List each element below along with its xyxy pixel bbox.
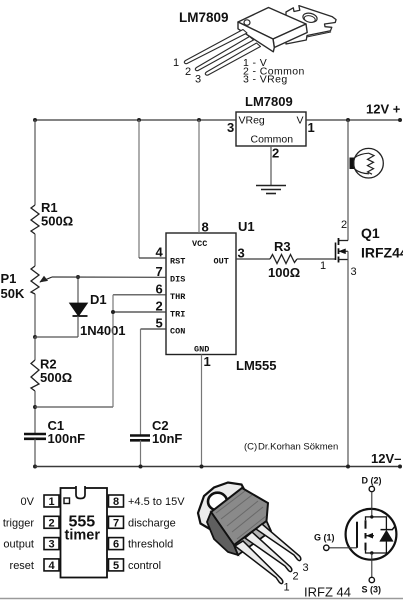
wire pin4 stub [139,257,166,259]
wire R3 to gate [297,258,336,260]
DIP pin box 8 [109,495,124,507]
bottom scan line [0,598,403,600]
symbol gate bar [356,522,358,548]
svg-text:reset: reset [10,560,34,572]
IRFZ44 package tab [198,483,245,531]
svg-text:control: control [128,560,161,572]
node dot C2 bottom rail [139,465,143,469]
LM7809 pin 3 [205,43,260,75]
wire pin2 TRI stub [113,311,166,313]
potentiometer P1 wiper arrow [40,277,52,282]
wire R1 to P1 [34,234,36,266]
LM7809 pin 2 [195,37,253,71]
svg-text:RST: RST [170,257,185,267]
svg-text:Common: Common [251,134,294,146]
LM7809 body front face [238,22,274,52]
svg-text:10nF: 10nF [152,431,182,446]
svg-text:2: 2 [156,299,163,314]
wire pin8 VCC vertical [198,120,200,233]
lamp filament [368,153,375,174]
wire source out of circle [371,553,373,577]
svg-text:1: 1 [173,57,179,69]
node dot Q1 bottom rail [346,465,350,469]
Q1 body arrow [339,250,348,252]
wire pin7 DIS stub from wiper [52,276,166,278]
svg-text:1: 1 [320,260,326,272]
svg-text:LM7809: LM7809 [245,94,293,109]
DIP pin box 4 [44,559,59,571]
wire C2 to bottom rail [140,440,142,466]
IRFZ44 pin 3 [256,524,301,561]
node dot lamp branch top rail [346,118,350,122]
svg-text:S (3): S (3) [362,585,382,595]
svg-text:6: 6 [113,539,119,551]
drain terminal circle [369,486,374,491]
555 pinout DIP body [61,488,108,578]
IRFZ44 pin 1 [235,541,283,584]
node dot drain junction [370,515,373,518]
wire R2 to C1 [34,391,36,434]
gate lead wire [329,547,357,549]
svg-text:5: 5 [156,316,163,331]
node dot TRI junction [111,310,115,314]
svg-text:threshold: threshold [128,539,173,551]
svg-text:50K: 50K [1,286,25,301]
wire left rail top [34,120,36,205]
IRFZ44 body front face [207,512,238,555]
svg-text:3 - VReg: 3 - VReg [243,74,288,86]
node dot bottom rail left [33,465,37,469]
source terminal circle [369,577,374,582]
wire pin6 THR stub [113,294,166,296]
svg-text:500Ω: 500Ω [41,214,73,229]
svg-text:1N4001: 1N4001 [80,323,126,338]
DIP pin1 marker [64,498,70,504]
DIP notch [76,486,85,499]
wire pin1 GND vertical [201,355,203,467]
svg-text:OUT: OUT [214,257,229,267]
lamp bulb [354,148,384,178]
svg-text:8: 8 [202,220,209,235]
svg-text:trigger: trigger [3,517,35,529]
wire bottom rail [35,466,400,468]
DIP pin box 6 [109,538,124,550]
body diode vertical bottom [385,541,387,553]
lamp base [350,158,355,170]
resistor R2 [31,360,39,391]
wire pin4 RST vertical from rail [138,120,140,258]
svg-text:12V +: 12V + [366,102,401,117]
svg-text:U1: U1 [238,219,255,234]
LM7809 tab hole [302,12,318,24]
svg-text:VCC: VCC [192,239,207,249]
DIP pin box 7 [109,516,124,528]
lamp neck arcs [355,153,370,174]
wire D1 bottom to rail [35,336,78,338]
svg-text:GND: GND [194,345,209,355]
svg-text:1: 1 [284,582,290,594]
wire Q1 source to bottom rail [347,251,349,466]
wire C1 to bottom rail [34,439,36,467]
svg-text:timer: timer [65,528,101,544]
node terminal dot 12V+ [398,118,402,122]
svg-text:4: 4 [156,245,164,260]
svg-text:1: 1 [308,120,315,135]
wire 12V+ rail left segment [35,119,236,121]
svg-text:P1: P1 [1,271,17,286]
wire branch to x113 vertical [35,406,113,408]
symbol channel bar segments [365,520,367,550]
svg-text:8: 8 [113,496,119,508]
DIP pin box 2 [44,516,59,528]
DIP pin box 3 [44,538,59,550]
diode D1 wire top [77,277,79,303]
svg-text:VReg: VReg [239,115,265,127]
wire pin5 CON stub [141,328,167,330]
LM7809 body right face [273,24,307,48]
source connect channel [366,550,387,553]
resistor R3 [270,255,297,264]
regulator box [236,112,306,146]
svg-text:12V–: 12V– [371,451,401,466]
IRFZ44 body texture [216,491,266,539]
svg-text:3: 3 [195,74,201,86]
svg-text:+4.5 to 15V: +4.5 to 15V [128,496,185,508]
svg-text:7: 7 [156,264,163,279]
svg-text:3: 3 [227,120,234,135]
Q1 channel bar segments [338,238,340,263]
node dot wire-to-TRI branch [33,405,37,409]
drain connect to diode branch [372,517,387,529]
svg-text:THR: THR [170,292,186,302]
svg-text:2: 2 [49,517,55,529]
MOSFET symbol circle [346,509,397,560]
wire regulator pin2 to ground [270,146,272,186]
DIP pin box 5 [109,559,124,571]
body diode triangle [380,530,394,541]
drain connect to channel [366,517,372,520]
node dot D1 bottom rail [33,335,37,339]
wire THR-TRI vertical x113 down to branch [112,295,114,407]
svg-text:4: 4 [49,560,56,572]
svg-text:IRFZ44: IRFZ44 [361,245,403,261]
svg-text:6: 6 [156,282,163,297]
svg-text:3: 3 [303,562,309,574]
svg-text:100nF: 100nF [48,431,86,446]
LM7809 body top face [238,8,306,40]
svg-text:Q1: Q1 [361,225,380,241]
node dot wiper wire D1 [76,275,80,279]
svg-text:2: 2 [293,571,299,583]
svg-text:LM7809: LM7809 [179,10,229,25]
capacitor C2 [130,436,150,441]
transistor Q1 drain lead [339,240,349,242]
symbol body arrow [366,535,374,537]
IRFZ44 tab hole [208,493,227,511]
DIP pin box 1 [44,495,59,507]
ground symbol [256,186,286,194]
LM7809 package tab [286,6,336,44]
IRFZ44 body top face [211,488,268,545]
wire junction to R2 [34,337,36,360]
svg-text:0V: 0V [21,496,35,508]
svg-text:G (1): G (1) [314,533,335,543]
svg-text:discharge: discharge [128,517,176,529]
svg-text:D1: D1 [90,292,107,307]
svg-text:DIS: DIS [170,275,185,285]
svg-text:V: V [297,115,304,127]
svg-text:1: 1 [49,496,55,508]
svg-text:3: 3 [238,246,245,261]
svg-text:3: 3 [351,266,357,278]
svg-text:(C) Dr.Korhan Sökmen: (C) Dr.Korhan Sökmen [244,442,338,453]
node dot source junction [370,551,373,554]
svg-text:1: 1 [204,354,211,369]
svg-text:500Ω: 500Ω [40,370,72,385]
svg-text:3: 3 [49,539,55,551]
IRFZ44 pin 2 [245,532,292,572]
svg-text:R3: R3 [274,239,291,254]
node dot top-left corner [33,118,37,122]
svg-text:IRFZ 44: IRFZ 44 [304,585,351,600]
svg-text:5: 5 [113,560,119,572]
LM7809 tab thickness line [307,32,331,37]
capacitor C1 [24,434,46,439]
node dot at x139 top rail [137,118,141,122]
wire CON vertical to C2 [140,329,142,435]
wire P1 to lower junction [34,294,36,337]
svg-text:LM555: LM555 [236,358,276,373]
IRFZ44 body lower face [234,521,271,555]
potentiometer P1 body [31,266,39,294]
svg-text:TRI: TRI [170,310,185,320]
Q1 source lead [339,259,349,261]
wire pin3 OUT stub [236,258,270,260]
wire drain into circle [371,492,373,517]
svg-text:100Ω: 100Ω [268,265,300,280]
resistor R1 [31,205,39,234]
body diode zener bar [381,526,395,529]
svg-text:2: 2 [272,146,279,161]
svg-text:2: 2 [185,66,191,78]
IC U1 LM555 box [166,233,236,355]
wire 12V+ rail right segment [306,119,400,121]
wire lamp branch vertical [347,120,349,241]
diode D1 wire bottom [77,316,79,337]
gate terminal circle [324,545,329,550]
LM7809 pin 1 [184,30,247,64]
node terminal dot 12V- [398,465,402,469]
svg-text:D (2): D (2) [362,476,382,486]
svg-text:2: 2 [341,219,347,231]
diode D1 [70,303,88,316]
node dot GND bottom rail [200,465,204,469]
node dot at x199 top rail [197,118,201,122]
svg-text:7: 7 [113,517,119,529]
LM7809 body face circle [244,20,250,25]
svg-text:CON: CON [170,327,185,337]
Q1 gate bar [335,243,337,261]
svg-text:output: output [3,539,34,551]
